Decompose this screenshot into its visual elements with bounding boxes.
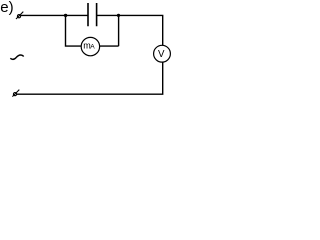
svg-text:A: A bbox=[90, 43, 95, 50]
svg-text:e): e) bbox=[0, 0, 13, 16]
svg-text:V: V bbox=[158, 49, 165, 60]
